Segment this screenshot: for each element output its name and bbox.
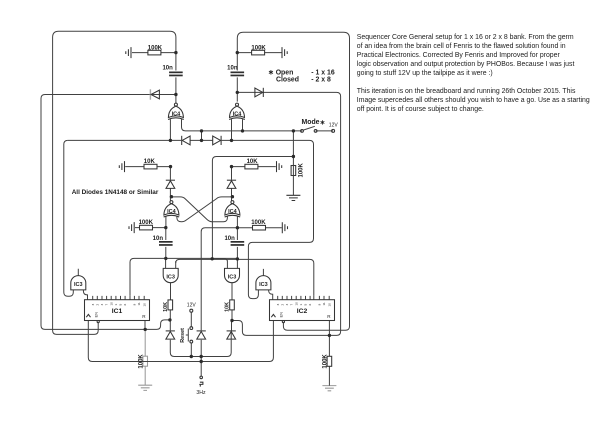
- svg-text:logic observation and output p: logic observation and output protection …: [357, 61, 575, 68]
- svg-text:1: 1: [114, 304, 118, 306]
- svg-text:12V: 12V: [187, 302, 197, 308]
- svg-text:IC4: IC4: [172, 112, 182, 118]
- svg-text:4: 4: [100, 304, 104, 306]
- svg-text:2: 2: [95, 304, 99, 306]
- svg-text:IC3: IC3: [166, 275, 175, 281]
- svg-text:11: 11: [137, 302, 141, 305]
- svg-text:5: 5: [119, 304, 123, 306]
- svg-text:IC3: IC3: [259, 282, 268, 288]
- svg-text:3Hz: 3Hz: [196, 390, 206, 396]
- svg-text:IC3: IC3: [74, 282, 83, 288]
- svg-text:7: 7: [105, 304, 109, 306]
- svg-text:2: 2: [280, 304, 284, 306]
- svg-text:6: 6: [308, 304, 312, 306]
- svg-text:All Diodes 1N4148 or Similar: All Diodes 1N4148 or Similar: [72, 189, 159, 196]
- svg-text:100K: 100K: [138, 354, 144, 369]
- svg-text:9: 9: [318, 304, 322, 306]
- svg-text:IC4: IC4: [228, 209, 238, 215]
- svg-text:going to stuff 12V up the tail: going to stuff 12V up the tailpipe as it…: [357, 70, 493, 77]
- svg-text:off point. It is of course su: off point. It is of course subject to ch…: [357, 106, 484, 113]
- svg-text:100K: 100K: [251, 45, 266, 51]
- svg-text:12V: 12V: [329, 123, 339, 129]
- svg-text:100K: 100K: [298, 162, 304, 177]
- svg-text:∗: ∗: [320, 120, 326, 127]
- svg-text:5: 5: [304, 304, 308, 306]
- svg-text:6: 6: [123, 304, 127, 306]
- svg-text:of an idea from the brain cell: of an idea from the brain cell of Fenris…: [357, 43, 566, 50]
- svg-text:10: 10: [294, 302, 298, 306]
- svg-text:1: 1: [299, 304, 303, 306]
- svg-text:100K: 100K: [323, 354, 329, 369]
- svg-text:10: 10: [327, 303, 331, 307]
- svg-text:IC4: IC4: [233, 112, 243, 118]
- svg-text:EN: EN: [279, 312, 284, 318]
- svg-text:Image supercedes all others sh: Image supercedes all others should you w…: [357, 97, 590, 104]
- svg-text:9: 9: [133, 304, 137, 306]
- svg-text:10K: 10K: [163, 302, 169, 312]
- svg-text:3: 3: [276, 304, 280, 306]
- svg-text:IC1: IC1: [112, 308, 123, 315]
- svg-text:Mode: Mode: [302, 119, 320, 126]
- svg-text:10n: 10n: [153, 236, 164, 242]
- svg-text:IC3: IC3: [228, 275, 237, 281]
- svg-text:10n: 10n: [224, 236, 235, 242]
- svg-text:Closed: Closed: [276, 77, 299, 84]
- svg-text:100K: 100K: [148, 45, 163, 51]
- svg-text:IC2: IC2: [297, 308, 308, 315]
- svg-text:3: 3: [91, 304, 95, 306]
- svg-text:100K: 100K: [251, 220, 266, 226]
- svg-text:Practical Electronics. Correct: Practical Electronics. Corrected By Fenr…: [357, 52, 561, 59]
- svg-text:Sequencer Core General setup f: Sequencer Core General setup for 1 x 16 …: [357, 34, 574, 41]
- svg-text:Reset: Reset: [180, 328, 186, 343]
- svg-text:EN: EN: [93, 312, 98, 318]
- svg-text:∗ Open: ∗ Open: [268, 70, 293, 77]
- svg-text:IC4: IC4: [167, 209, 177, 215]
- svg-text:10n: 10n: [162, 66, 173, 72]
- svg-text:10: 10: [142, 303, 146, 307]
- svg-text:10: 10: [109, 302, 113, 306]
- svg-text:10K: 10K: [144, 159, 156, 165]
- svg-text:7: 7: [290, 304, 294, 306]
- svg-text:11: 11: [322, 302, 326, 305]
- svg-text:100K: 100K: [139, 220, 154, 226]
- svg-text:10n: 10n: [227, 65, 238, 71]
- svg-text:4: 4: [285, 304, 289, 306]
- svg-text:10K: 10K: [225, 302, 231, 312]
- svg-text:- 2 x 8: - 2 x 8: [311, 77, 331, 84]
- svg-text:- 1 x 16: - 1 x 16: [311, 70, 335, 77]
- svg-text:This iteration is on the bread: This iteration is on the breadboard and …: [357, 88, 576, 95]
- svg-text:10K: 10K: [247, 159, 259, 165]
